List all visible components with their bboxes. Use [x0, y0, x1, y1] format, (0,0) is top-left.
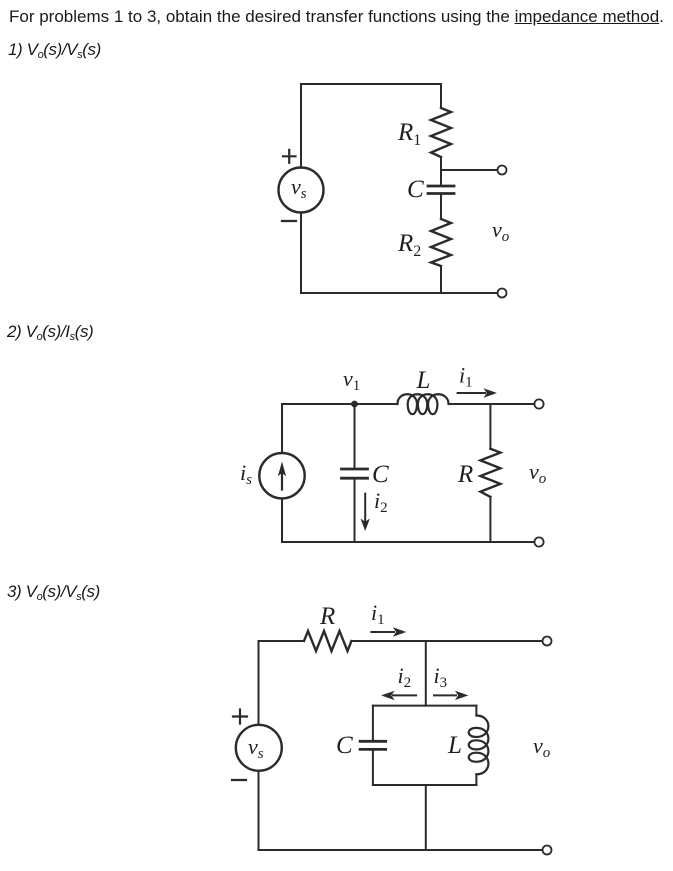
minus sign (c3) — [232, 779, 246, 781]
terminal bottom (c2) — [534, 537, 543, 546]
arrow inside source (c2) — [281, 474, 283, 490]
capacitor C plates (c1) — [428, 186, 454, 194]
svg-text:vs: vs — [291, 174, 307, 202]
wire cap-R2 (c1) — [440, 194, 442, 220]
arrow i2 (c2) — [364, 494, 366, 521]
svg-text:C: C — [372, 461, 389, 488]
voltage source VS (c3) — [236, 725, 282, 771]
plus sign (c3) — [233, 710, 247, 724]
terminal bottom (c3) — [543, 846, 552, 855]
wire center upper (c3) — [425, 641, 427, 706]
wire left upper (c3) — [258, 641, 260, 725]
svg-text:i2: i2 — [398, 663, 412, 691]
wire top right (c3) — [351, 640, 542, 642]
wire top (c1) — [301, 83, 441, 85]
terminal bottom (c1) — [498, 289, 507, 298]
svg-text:vo: vo — [492, 217, 510, 245]
wire top right segment (c2) — [449, 403, 535, 405]
svg-text:R: R — [319, 603, 335, 630]
arrow i1 (c3) — [371, 631, 394, 633]
wire top left segment (c2) — [282, 403, 398, 405]
svg-text:R: R — [457, 461, 473, 488]
wire bottom (c3) — [259, 849, 543, 851]
svg-text:L: L — [416, 367, 431, 394]
box bottom rail (c3) — [373, 784, 477, 786]
current source IS (c2) — [259, 453, 304, 498]
arrow i3 (c3) — [434, 694, 456, 696]
wire left lower (c1) — [300, 213, 302, 294]
wire top left (c3) — [259, 640, 305, 642]
wire bottom (c1) — [301, 292, 498, 294]
instruction text — [9, 7, 664, 27]
capacitor C plates (c2) — [342, 469, 368, 478]
inductor L (c3) — [469, 716, 489, 775]
wire left upper (c2) — [281, 404, 283, 453]
wire R bottom (c2) — [489, 497, 491, 542]
svg-text:i2: i2 — [374, 488, 388, 516]
box top rail (c3) — [373, 705, 477, 707]
wire left upper (c1) — [300, 84, 302, 168]
inductor L (c2) — [398, 394, 449, 414]
minus sign (c1) — [282, 220, 296, 222]
problem 1 label — [8, 40, 101, 60]
resistor R (c3) — [304, 631, 351, 651]
svg-text:i1: i1 — [459, 363, 473, 391]
arrow i2 (c3) — [393, 694, 416, 696]
wire cap bottom (c2) — [354, 478, 356, 542]
terminal top (c3) — [543, 637, 552, 646]
voltage source VS (c1) — [279, 168, 324, 213]
terminal top (c2) — [534, 399, 543, 408]
node v1 (c2) — [351, 401, 358, 408]
resistor R2 (c1) — [431, 219, 451, 266]
plus sign (c1) — [283, 150, 296, 163]
box right upper (c3) — [475, 706, 477, 716]
resistor R1 (c1) — [431, 108, 451, 157]
svg-text:v1: v1 — [343, 366, 360, 394]
wire center lower (c3) — [425, 785, 427, 850]
svg-text:vs: vs — [248, 734, 264, 762]
wire bottom (c2) — [282, 541, 534, 543]
resistor R (c2) — [480, 449, 500, 497]
svg-text:L: L — [447, 732, 462, 759]
svg-text:R1: R1 — [397, 119, 421, 149]
wire R1-node-cap (c1) — [440, 157, 442, 186]
node wire to terminal (c1) — [441, 169, 498, 171]
problem 2 label — [7, 322, 93, 342]
svg-text:is: is — [240, 460, 252, 488]
wire left lower (c3) — [258, 771, 260, 850]
terminal top (c1) — [498, 166, 507, 175]
box left lower (c3) — [372, 749, 374, 785]
problem 3 label — [7, 582, 100, 602]
wire R2 bottom (c1) — [440, 266, 442, 293]
svg-text:i1: i1 — [371, 600, 385, 628]
svg-text:C: C — [407, 176, 424, 203]
svg-text:R2: R2 — [397, 230, 421, 260]
wire R top (c2) — [489, 404, 491, 449]
box left upper / cap top (c3) — [372, 706, 374, 742]
wire cap top (c2) — [354, 404, 356, 469]
box right lower (c3) — [475, 774, 477, 785]
svg-text:i3: i3 — [434, 663, 448, 691]
wire left lower (c2) — [281, 498, 283, 542]
arrow i1 (c2) — [458, 392, 485, 394]
svg-text:vo: vo — [533, 733, 551, 761]
capacitor C plates (c3) — [360, 741, 386, 749]
svg-text:vo: vo — [529, 459, 547, 487]
wire R1 top (c1) — [440, 84, 442, 108]
svg-text:C: C — [336, 732, 353, 759]
